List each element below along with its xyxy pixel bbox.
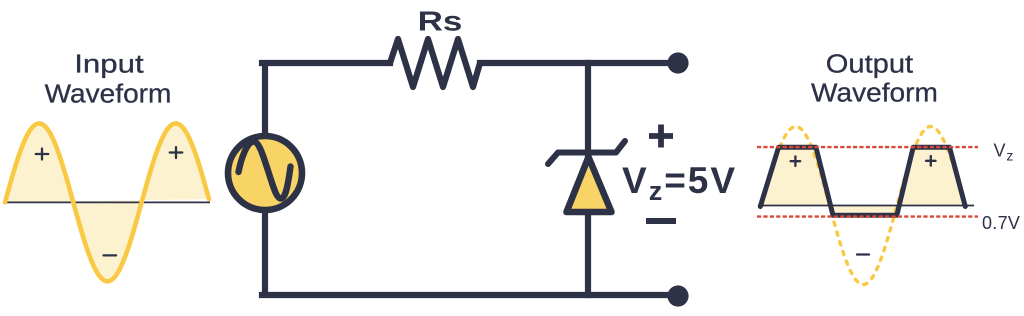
svg-text:0.7V: 0.7V bbox=[982, 213, 1020, 233]
svg-text:Rs: Rs bbox=[418, 5, 463, 37]
svg-text:Waveform: Waveform bbox=[45, 79, 172, 108]
svg-text:Output: Output bbox=[826, 49, 914, 78]
svg-text:Input: Input bbox=[74, 50, 143, 79]
svg-text:Waveform: Waveform bbox=[811, 78, 938, 107]
svg-text:Vz=5V: Vz=5V bbox=[622, 160, 737, 206]
